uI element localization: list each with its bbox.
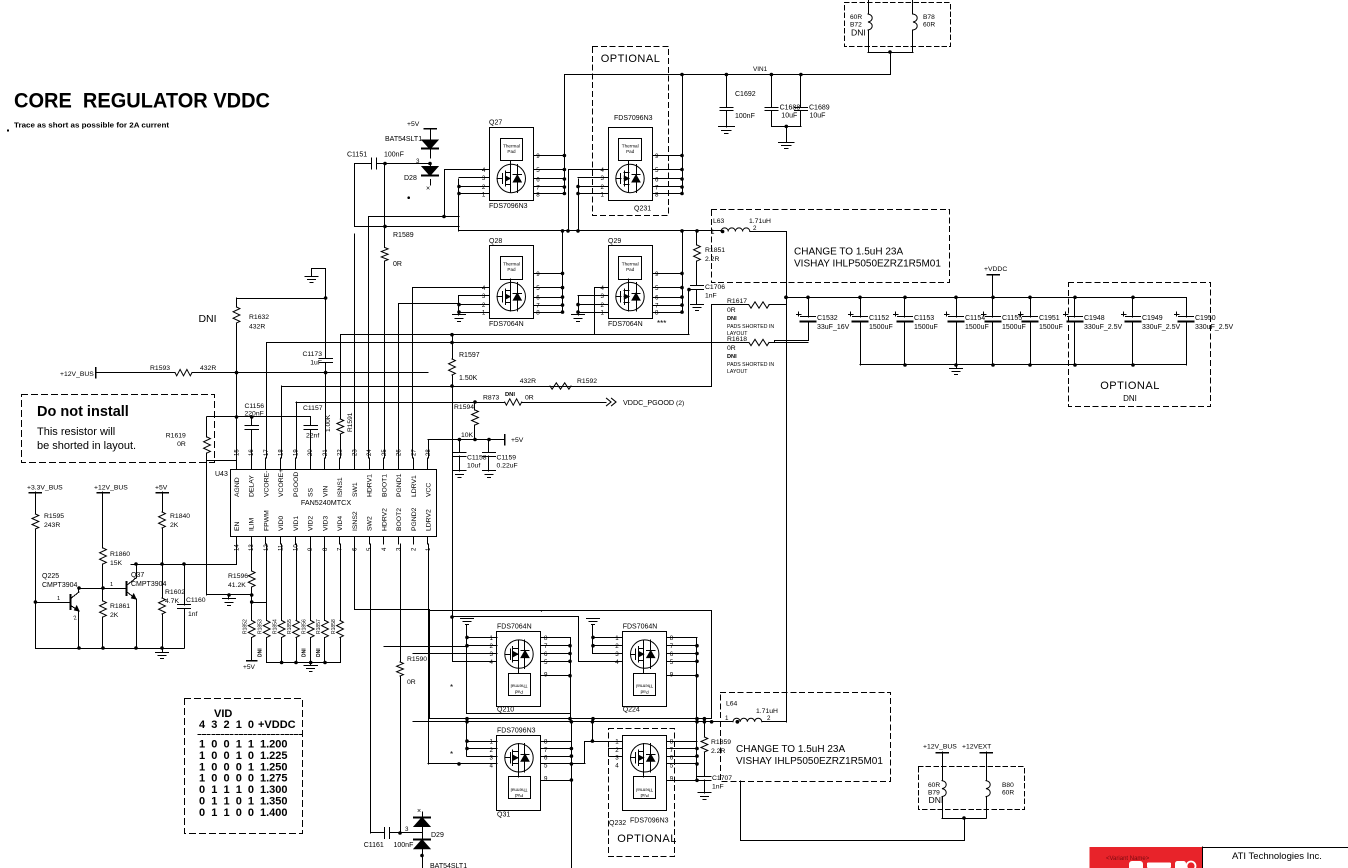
svg-text:3: 3 (482, 293, 486, 300)
ferrite bead B79 (942, 752, 944, 781)
svg-text:330uF_2.5V: 330uF_2.5V (1195, 324, 1233, 331)
wire ISNS2 into group (355, 609, 429, 611)
svg-text:CMPT3904: CMPT3904 (42, 582, 78, 589)
pin 1 LDRV2 (427, 537, 429, 545)
svg-text:0R: 0R (727, 345, 736, 352)
svg-text:432R: 432R (249, 324, 265, 331)
wire C1156 top (207, 416, 311, 418)
svg-text:HDRV1: HDRV1 (367, 474, 374, 497)
svg-text:6: 6 (544, 755, 548, 762)
svg-text:15K: 15K (110, 560, 123, 567)
svg-text:8: 8 (544, 635, 548, 642)
wire Q31 drain vertical (571, 722, 573, 868)
svg-text:0R: 0R (177, 441, 186, 448)
wire Q29 drain vertical (682, 231, 684, 312)
svg-text:FDS7096N3: FDS7096N3 (614, 115, 653, 122)
svg-text:5: 5 (655, 167, 659, 174)
svg-text:LDRV1: LDRV1 (411, 475, 418, 497)
svg-text:BAT54SLT1: BAT54SLT1 (385, 136, 422, 143)
svg-text:Do not install: Do not install (37, 404, 129, 420)
OPTIONAL box (Q231) (593, 47, 669, 216)
svg-text:R1852: R1852 (243, 619, 249, 634)
svg-text:VIN: VIN (322, 486, 329, 497)
svg-text:27: 27 (411, 449, 417, 456)
svg-text:DNI: DNI (727, 354, 737, 360)
svg-text:VID1: VID1 (293, 516, 300, 531)
svg-text:+5V: +5V (511, 437, 524, 444)
svg-text:VID2: VID2 (308, 516, 315, 531)
svg-text:L63: L63 (713, 218, 725, 225)
svg-text:FAN5240MTCX: FAN5240MTCX (301, 498, 352, 507)
wire Q29 gate (595, 288, 609, 335)
wire R1617 riser (711, 305, 713, 386)
svg-text:2.2R: 2.2R (711, 748, 725, 755)
svg-text:1.71uH: 1.71uH (756, 708, 778, 715)
svg-text:R1853: R1853 (258, 619, 264, 634)
svg-text:C1950: C1950 (1195, 315, 1216, 322)
svg-text:1: 1 (482, 310, 486, 317)
svg-text:Pad: Pad (507, 149, 516, 154)
svg-text:Q225: Q225 (42, 573, 59, 580)
wire VCC +5V (428, 439, 505, 441)
resistor R1857 (324, 544, 326, 621)
svg-text:14: 14 (235, 544, 241, 551)
svg-text:C1692: C1692 (735, 91, 756, 98)
svg-text:+12V_BUS: +12V_BUS (923, 744, 957, 751)
wire Q210 drain vertical (570, 637, 572, 718)
svg-text:60R: 60R (928, 782, 940, 789)
svg-text:19: 19 (293, 449, 299, 456)
svg-text:+5V: +5V (155, 485, 168, 492)
svg-text:BOOT2: BOOT2 (396, 508, 403, 531)
pin 3 BOOT2 (398, 537, 400, 545)
pin 2 PGND2 (413, 537, 415, 545)
capacitor C1706 (691, 285, 704, 287)
svg-text:243R: 243R (44, 522, 60, 529)
svg-text:FDS7064N: FDS7064N (489, 321, 524, 328)
wire Q232 source feed (541, 763, 585, 765)
resistor R1852 (248, 621, 255, 638)
svg-text:1: 1 (711, 229, 715, 236)
svg-text:R1861: R1861 (110, 603, 130, 610)
svg-text:Pad: Pad (640, 793, 649, 798)
wire SW1 column (354, 164, 356, 227)
svg-text:BAT54SLT1: BAT54SLT1 (430, 863, 467, 868)
svg-text:C1949: C1949 (1142, 315, 1163, 322)
svg-text:ISNS2: ISNS2 (352, 511, 359, 531)
pin 16 DELAY (251, 458, 253, 470)
svg-text:OPTIONAL: OPTIONAL (617, 833, 677, 845)
svg-text:DNI: DNI (302, 648, 308, 657)
ground flag Q210 sources (461, 618, 474, 620)
transistor Q232 FDS7096N3 (623, 736, 667, 811)
svg-text:1500uF: 1500uF (965, 324, 989, 331)
pin 22 ISNS1 (339, 458, 341, 470)
svg-text:1 0 0 1 1: 1 0 0 1 1 (199, 739, 254, 751)
svg-text:8: 8 (536, 310, 540, 317)
svg-text:8: 8 (655, 310, 659, 317)
svg-text:Thermal: Thermal (636, 684, 653, 689)
svg-text:1: 1 (490, 635, 494, 642)
svg-text:4: 4 (482, 167, 486, 174)
svg-text:100nF: 100nF (384, 152, 404, 159)
capacitor C1950 (1186, 297, 1188, 317)
dot mark (407, 196, 410, 199)
resistor R1597 (450, 341, 454, 345)
svg-text:330uF_2.5V: 330uF_2.5V (1142, 324, 1180, 331)
svg-text:R1617: R1617 (727, 298, 747, 305)
svg-text:432R: 432R (520, 378, 536, 385)
vertical VDDC feed from L63/L64 (786, 232, 788, 722)
svg-text:17: 17 (264, 449, 270, 456)
svg-text:5: 5 (655, 285, 659, 292)
resistor R1593 (96, 372, 175, 374)
svg-text:+12V_BUS: +12V_BUS (94, 485, 128, 492)
svg-text:7: 7 (655, 303, 659, 310)
svg-text:2: 2 (601, 302, 605, 309)
capacitor C1951 (1030, 297, 1032, 317)
svg-text:AGND: AGND (234, 477, 241, 497)
svg-text:FDS7064N: FDS7064N (608, 321, 643, 328)
svg-text:2: 2 (767, 715, 771, 722)
svg-text:FDS7096N3: FDS7096N3 (497, 728, 536, 735)
svg-text:R1856: R1856 (302, 619, 308, 634)
svg-text:2: 2 (482, 302, 486, 309)
svg-text:R873: R873 (483, 395, 499, 402)
capacitor C1152 (860, 297, 862, 317)
svg-text:26: 26 (397, 449, 403, 456)
svg-text:0R: 0R (407, 679, 416, 686)
svg-text:60R: 60R (1002, 790, 1014, 797)
svg-text:Trace as short as possible for: Trace as short as possible for 2A curren… (14, 121, 170, 130)
svg-text:1.300: 1.300 (260, 784, 288, 796)
wire Q231 source vertical (578, 179, 580, 231)
pin 25 BOOT1 (383, 458, 385, 470)
svg-text:LAYOUT: LAYOUT (727, 369, 748, 375)
svg-text:+3.3V_BUS: +3.3V_BUS (27, 485, 63, 492)
svg-text:R1859: R1859 (711, 739, 731, 746)
svg-text:1500uF: 1500uF (1002, 324, 1026, 331)
OPTIONAL box Q232 (609, 729, 675, 857)
svg-text:Q232: Q232 (609, 820, 626, 827)
pin 7 VID4 (339, 537, 341, 545)
pin 19 PGOOD (295, 458, 297, 470)
svg-text:1.350: 1.350 (260, 796, 288, 808)
capacitor C1707 (698, 776, 711, 778)
svg-text:Q28: Q28 (489, 238, 502, 245)
svg-text:+5V: +5V (407, 121, 420, 128)
svg-text:1.71uH: 1.71uH (749, 218, 771, 225)
svg-text:FDS7064N: FDS7064N (497, 624, 532, 631)
svg-text:2K: 2K (110, 612, 119, 619)
wire VIN1 rail (564, 74, 890, 76)
OPTIONAL DNI box output caps (1069, 283, 1211, 407)
svg-text:***: *** (657, 319, 666, 328)
svg-text:1.200: 1.200 (260, 739, 288, 751)
svg-text:2: 2 (482, 184, 486, 191)
svg-text:3: 3 (601, 293, 605, 300)
wire AGND pin jog (207, 460, 237, 462)
svg-text:Q224: Q224 (623, 707, 640, 714)
wire SW node rail phase2 (413, 721, 733, 723)
svg-text:C1173: C1173 (302, 351, 322, 358)
svg-text:VCC: VCC (425, 483, 432, 497)
pin 5 SW2 (369, 537, 371, 545)
inductor L64 change-note box (721, 693, 891, 782)
wire output ground bus (860, 364, 1186, 366)
svg-text:L64: L64 (726, 701, 738, 708)
svg-text:2: 2 (615, 643, 619, 650)
ferrite bead B72 (868, 0, 870, 14)
wire Q27 drain vertical VIN (564, 75, 566, 194)
svg-text:R1589: R1589 (393, 232, 414, 239)
svg-text:1500uF: 1500uF (914, 324, 938, 331)
resistor R1853 (266, 544, 268, 621)
wire Q231 drain stubs (682, 75, 684, 195)
svg-text:C1154: C1154 (965, 315, 985, 322)
svg-text:0 1 1 1 0: 0 1 1 1 0 (199, 784, 254, 796)
wire ISNS1 sense (341, 334, 689, 336)
wire PGOOD (296, 402, 505, 404)
inductor L63 change-note box (712, 210, 950, 283)
svg-text:7: 7 (536, 303, 540, 310)
svg-text:3: 3 (490, 755, 494, 762)
svg-text:220nF: 220nF (245, 411, 264, 418)
svg-text:23: 23 (352, 449, 358, 456)
svg-text:Q210: Q210 (497, 707, 514, 714)
svg-text:VISHAY IHLP5050EZRZ1R5M01: VISHAY IHLP5050EZRZ1R5M01 (736, 756, 883, 767)
svg-text:9: 9 (670, 775, 674, 782)
svg-text:6: 6 (544, 651, 548, 658)
svg-text:C1157: C1157 (303, 405, 323, 412)
svg-text:R1855: R1855 (287, 619, 293, 634)
svg-text:ISNS1: ISNS1 (337, 477, 344, 497)
svg-text:2.2R: 2.2R (705, 256, 719, 263)
svg-text:*: * (450, 750, 453, 759)
svg-text:60R: 60R (850, 14, 862, 21)
svg-text:CORE REGULATOR VDDC: CORE REGULATOR VDDC (14, 90, 270, 113)
svg-text:+VDDC: +VDDC (258, 719, 296, 731)
svg-text:Thermal: Thermal (622, 144, 639, 149)
ground flag AGND (312, 269, 326, 277)
svg-text:VID3: VID3 (322, 516, 329, 531)
svg-text:C1156: C1156 (245, 403, 265, 410)
capacitor C1159 (488, 440, 490, 453)
svg-text:0.22uF: 0.22uF (497, 463, 518, 470)
svg-text:be shorted in layout.: be shorted in layout. (37, 440, 136, 452)
svg-text:VISHAY IHLP5050EZRZ1R5M01: VISHAY IHLP5050EZRZ1R5M01 (794, 259, 941, 270)
svg-text:0 1 1 0 1: 0 1 1 0 1 (199, 796, 254, 808)
svg-text:3: 3 (615, 651, 619, 658)
svg-text:LDRV2: LDRV2 (425, 509, 432, 531)
pin 8 VID3 (324, 537, 326, 545)
svg-text:10uF: 10uF (810, 113, 826, 120)
wire LDRV2 gate feed (428, 763, 497, 765)
wire collector rail to EN (131, 564, 237, 566)
svg-text:Pad: Pad (626, 149, 635, 154)
svg-text:10uf: 10uf (467, 463, 480, 470)
pin 15 AGND (236, 458, 238, 470)
svg-text:8: 8 (670, 635, 674, 642)
ground flag Q224 sources (587, 618, 600, 620)
svg-text:4: 4 (615, 659, 619, 666)
wire +VDDC bus (786, 297, 1186, 299)
svg-text:24: 24 (367, 449, 373, 456)
svg-text:4 3 2 1 0: 4 3 2 1 0 (199, 719, 254, 731)
svg-text:25: 25 (382, 449, 388, 456)
svg-text:C1951: C1951 (1039, 315, 1060, 322)
svg-text:EN: EN (234, 521, 241, 531)
svg-text:2: 2 (753, 225, 757, 232)
svg-text:16: 16 (249, 449, 255, 456)
wire Q224 drain vertical (696, 637, 698, 718)
svg-text:28: 28 (426, 449, 432, 456)
svg-text:41.2K: 41.2K (228, 582, 246, 589)
svg-text:R1840: R1840 (170, 513, 190, 520)
svg-text:FDS7096N3: FDS7096N3 (489, 203, 528, 210)
svg-text:R1597: R1597 (459, 352, 480, 359)
capacitor C1158 (459, 440, 461, 453)
wire cap join to ground (771, 126, 801, 128)
wire C1532 sense bottom (769, 342, 775, 344)
wire VID pulldown bus (267, 662, 340, 664)
svg-text:BOOT1: BOOT1 (381, 474, 388, 497)
svg-text:C1159: C1159 (497, 455, 517, 462)
svg-text:DNI: DNI (316, 648, 322, 657)
wire Q31 source riser (466, 722, 468, 756)
svg-text:9: 9 (544, 775, 548, 782)
capacitor C1154 (956, 297, 958, 317)
svg-text:1.275: 1.275 (260, 773, 288, 785)
svg-text:6: 6 (536, 295, 540, 302)
ferrite bead box (bottom) (919, 767, 1025, 810)
resistor R1851 (696, 231, 698, 245)
svg-text:1.250: 1.250 (260, 761, 288, 773)
svg-text:<Variant Name>: <Variant Name> (1106, 856, 1150, 862)
svg-text:DNI: DNI (851, 28, 866, 38)
pin 13 ILIM (251, 537, 253, 545)
wire Q28 source to ground (458, 296, 460, 315)
wire Q225 collector to Q37 base (79, 588, 127, 590)
resistor R1855 (296, 544, 298, 621)
wire Q224 gate feed (579, 617, 623, 662)
svg-text:Thermal: Thermal (503, 144, 520, 149)
svg-text:10K: 10K (461, 432, 474, 439)
wire phase2 drain box (430, 611, 712, 719)
pin 21 VIN (324, 458, 326, 470)
pin 27 LDRV1 (413, 458, 415, 470)
svg-text:B80: B80 (1002, 782, 1014, 789)
svg-text:1: 1 (490, 739, 494, 746)
svg-text:Q37: Q37 (131, 572, 144, 579)
svg-text:ILIM: ILIM (249, 517, 256, 531)
svg-text:1500uF: 1500uF (1039, 324, 1063, 331)
svg-text:1nf: 1nf (188, 611, 198, 618)
svg-text:C1152: C1152 (869, 315, 889, 322)
svg-text:DNI: DNI (1123, 394, 1137, 403)
svg-text:18: 18 (279, 449, 285, 456)
svg-text:1 0 0 0 1: 1 0 0 0 1 (199, 761, 254, 773)
pin 26 PGND1 (398, 458, 400, 470)
svg-text:6: 6 (536, 177, 540, 184)
svg-text:1: 1 (482, 192, 486, 199)
svg-text:13: 13 (249, 544, 255, 551)
svg-text:2: 2 (490, 643, 494, 650)
svg-text:R1594: R1594 (454, 404, 474, 411)
svg-text:+VDDC: +VDDC (984, 266, 1007, 273)
svg-text:R1595: R1595 (44, 513, 64, 520)
svg-text:432R: 432R (200, 365, 216, 372)
svg-text:3: 3 (615, 755, 619, 762)
svg-text:D29: D29 (431, 832, 444, 839)
svg-text:This resistor will: This resistor will (37, 426, 115, 438)
svg-text:CHANGE TO 1.5uH 23A: CHANGE TO 1.5uH 23A (736, 744, 845, 755)
svg-text:DELAY: DELAY (249, 475, 256, 497)
svg-text:HDRV2: HDRV2 (381, 508, 388, 531)
pin 11 VID0 (280, 537, 282, 545)
wire Q27 gate riser (445, 170, 490, 217)
wire ILIM ground (207, 594, 252, 596)
svg-text:PADS SHORTED IN: PADS SHORTED IN (727, 362, 774, 368)
svg-text:R1602: R1602 (165, 589, 185, 596)
svg-text:+12V_BUS: +12V_BUS (60, 371, 94, 378)
svg-text:9: 9 (536, 271, 540, 278)
svg-text:4: 4 (615, 763, 619, 770)
svg-text:8: 8 (536, 192, 540, 199)
svg-text:*: * (450, 683, 453, 692)
wire Q27 source vertical (458, 179, 460, 231)
svg-text:U43: U43 (215, 471, 228, 478)
svg-text:VID4: VID4 (337, 516, 344, 531)
svg-text:C1151: C1151 (347, 152, 367, 159)
svg-text:1500uF: 1500uF (869, 324, 893, 331)
svg-text:DNI: DNI (929, 795, 944, 805)
wire BOOT1 column upper (384, 164, 386, 248)
svg-text:+12VEXT: +12VEXT (962, 744, 991, 751)
svg-text:FDS7064N: FDS7064N (623, 624, 658, 631)
ferrite bead B78 (912, 0, 914, 14)
svg-text:4: 4 (601, 285, 605, 292)
svg-text:VCORE+: VCORE+ (278, 469, 285, 497)
svg-text:Pad: Pad (507, 267, 516, 272)
wire SW node rail phase1 (355, 226, 459, 228)
svg-text:6: 6 (670, 651, 674, 658)
pin 17 VCORE- (265, 458, 267, 470)
wire PGND1 feed (399, 303, 459, 305)
wire Q232 drain stubs (696, 722, 698, 781)
wire HDRV1 gate feed (369, 216, 459, 218)
svg-text:PADS SHORTED IN: PADS SHORTED IN (727, 324, 774, 330)
capacitor C1949 (1132, 297, 1134, 317)
svg-text:C1161: C1161 (364, 842, 384, 849)
pin 9 VID2 (310, 537, 312, 545)
wire VCORE+ sense (282, 386, 712, 388)
op-amp U43 FAN5240MTCX (231, 470, 437, 537)
svg-text:1 0 0 0 0: 1 0 0 0 0 (199, 773, 254, 785)
svg-text:C1948: C1948 (1084, 315, 1105, 322)
svg-text:Q27: Q27 (489, 120, 502, 127)
svg-text:10uF: 10uF (781, 113, 797, 120)
svg-text:5: 5 (670, 659, 674, 666)
ferrite bead B80 (986, 752, 988, 781)
resistor R1595 (35, 492, 37, 514)
resistor R1840 (162, 492, 164, 512)
capacitor C1532 (808, 297, 810, 317)
svg-text:SS: SS (308, 487, 315, 497)
table VID codes (185, 699, 303, 834)
resistor R1854 (281, 544, 283, 621)
svg-text:20: 20 (308, 449, 314, 456)
